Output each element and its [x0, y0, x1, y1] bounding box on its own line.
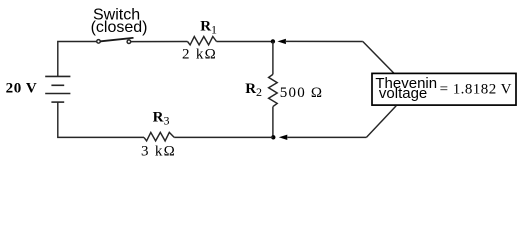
- svg-text:3 kΩ: 3 kΩ: [141, 144, 176, 160]
- wire: arrow line to right bend: [285, 40, 363, 42]
- svg-text:2 kΩ: 2 kΩ: [182, 47, 217, 63]
- wire: R2 down to bottom node: [272, 107, 274, 138]
- switch SW (closed): left terminal circle: [97, 40, 101, 44]
- wire: top node down to R2: [272, 42, 274, 75]
- wire: R1 to top node: [217, 41, 273, 43]
- resistor R1 zigzag: [188, 37, 217, 45]
- resistor R3 zigzag: [144, 132, 174, 141]
- wire: diagonal from callout box bottom to lower line: [366, 106, 396, 138]
- resistor R2 vertical zigzag: [269, 74, 278, 106]
- battery V1: bottom short plate: [51, 101, 64, 103]
- svg-text:voltage: voltage: [379, 85, 427, 102]
- wire: bottom node left to R3: [174, 136, 273, 138]
- wire: top-left corner from battery to switch left terminal: [58, 42, 97, 77]
- callout box: Thevenin voltage: [372, 73, 516, 105]
- arrow pointing at top node: [277, 39, 286, 44]
- battery V1: top long plate: [45, 75, 70, 77]
- wire: switch right terminal to R1: [131, 41, 188, 43]
- label: Thevenin voltage: [375, 75, 437, 102]
- switch SW (closed): lever arm: [101, 38, 133, 41]
- svg-text:500 Ω: 500 Ω: [280, 85, 323, 101]
- switch SW (closed): right terminal circle: [127, 40, 131, 44]
- node B: bottom junction dot: [271, 135, 275, 139]
- label: Switch (closed): [91, 6, 148, 36]
- arrow pointing at bottom node: [279, 135, 288, 140]
- battery V1: upper short plate: [51, 84, 64, 86]
- wire: lower line from diagonal to arrow: [288, 136, 367, 138]
- svg-text:20 V: 20 V: [6, 80, 38, 96]
- svg-text:(closed): (closed): [91, 19, 148, 36]
- node A: top junction dot: [271, 39, 275, 43]
- wire: diagonal from bend down to callout box top: [363, 42, 395, 74]
- wire: R3 to bottom-left corner and up to battery: [58, 102, 144, 138]
- battery V1: lower long plate: [45, 93, 70, 95]
- svg-text:= 1.8182 V: = 1.8182 V: [440, 82, 512, 98]
